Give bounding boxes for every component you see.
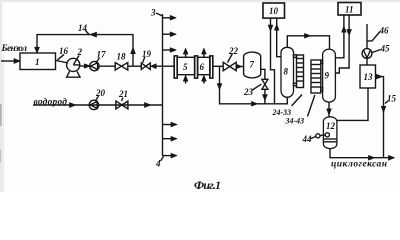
svg-text:19: 19 (142, 49, 152, 59)
scan border top (0, 0, 400, 2)
arrow feed right (252, 102, 258, 107)
arrow exch6 top (202, 48, 207, 54)
scan border left (0, 0, 2, 192)
leader 15 (385, 101, 389, 104)
reactor9 bottom outlet wire (328, 102, 330, 118)
svg-text:44: 44 (302, 134, 313, 144)
leader 16 (58, 55, 65, 60)
leader 34-43 (308, 95, 315, 117)
leader 4 (161, 157, 164, 162)
controller 11 (338, 3, 361, 16)
arrow recycle left 14 (90, 32, 97, 37)
svg-text:18: 18 (117, 52, 127, 62)
valve 22 (223, 62, 236, 70)
svg-text:6: 6 (200, 62, 205, 72)
svg-text:15: 15 (387, 94, 397, 104)
controller11 output wire (336, 15, 350, 73)
wire valve45 to box13 (366, 58, 368, 65)
arrow manifold 4b (171, 136, 177, 141)
leader 22 (228, 54, 233, 63)
reactor 9 (323, 49, 336, 102)
separator 7 (244, 52, 261, 78)
arrow manifold 3b (170, 32, 176, 37)
svg-text:13: 13 (364, 72, 374, 82)
arrow reactor9 to drum12 (327, 109, 332, 115)
arrow reactor8 to reactor9 (305, 34, 311, 39)
pump 2 (67, 58, 80, 77)
arrow controller11 out down (347, 30, 352, 36)
heater panel 24-33 (294, 55, 304, 88)
valve 19 (141, 63, 150, 69)
arrow manifold 3a (170, 16, 176, 21)
mixer tank 1 (20, 53, 56, 70)
svg-text:45: 45 (380, 44, 391, 54)
arrow valve23 down (263, 95, 268, 101)
svg-text:циклогексан: циклогексан (331, 160, 387, 170)
wire drum12 to box13 (337, 88, 369, 120)
svg-text:12: 12 (326, 121, 336, 131)
arrow box13 outlet right (376, 74, 382, 79)
branch wire 4b (163, 138, 175, 140)
level gauge 44 (316, 134, 320, 138)
valve 23 (262, 79, 268, 89)
svg-text:4: 4 (155, 159, 161, 169)
drum12 bottom outlet wire (330, 149, 394, 158)
branch wire 4a (163, 124, 175, 126)
arrow manifold 4a (171, 122, 177, 127)
svg-text:22: 22 (228, 46, 239, 56)
arrow controller11 sensor up (342, 26, 347, 32)
svg-text:34-43: 34-43 (285, 117, 305, 126)
leader 3 (156, 13, 162, 16)
arrow exch5 bottom (183, 75, 188, 81)
controller11 sensor wire (335, 15, 344, 58)
cooler 13 (360, 65, 376, 88)
branch wire 4c (163, 155, 175, 157)
flash drum 12 (323, 117, 337, 149)
arrow bypass down (217, 84, 222, 90)
arrow manifold 3c (170, 48, 176, 53)
bypass drop wire (220, 66, 288, 104)
branch wire 3c (163, 49, 174, 51)
arrow manifold 4c (171, 153, 177, 158)
arrow controller10 sensor up (274, 24, 279, 30)
arrow line15 down (381, 106, 386, 112)
scan mark left edge (0, 104, 2, 126)
arrow valve22 out (236, 64, 242, 69)
hydrogen makeup wire 46 (366, 24, 368, 49)
leader 45 (372, 50, 381, 53)
svg-text:Бензол: Бензол (1, 44, 28, 54)
svg-text:5: 5 (183, 62, 188, 72)
drum12 tray lines (324, 138, 337, 140)
valve 18 (115, 63, 128, 71)
wire valve23 to feed line (264, 89, 266, 104)
wire pump2 to check valve 17 (80, 65, 90, 67)
svg-text:2: 2 (77, 47, 83, 57)
svg-text:10: 10 (269, 6, 279, 16)
manifold header 3-4 (162, 14, 164, 156)
arrow controller10 out down (268, 25, 273, 31)
hydrogen feed wire (33, 104, 163, 106)
svg-text:11: 11 (345, 5, 354, 15)
leader 20 (95, 96, 98, 101)
controller10 sensor wire (277, 18, 281, 57)
svg-text:21: 21 (118, 89, 128, 99)
leader 21 (122, 98, 124, 102)
svg-text:23: 23 (243, 87, 254, 97)
svg-text:16: 16 (59, 46, 69, 56)
scan mark left lower (0, 150, 1, 162)
wire valve22 to separator7 (236, 66, 243, 68)
arrow exch5 top (183, 48, 188, 54)
recycle wire 14 (37, 35, 133, 67)
check valve 20 (89, 100, 98, 109)
scan fold line (2, 55, 4, 192)
svg-text:14: 14 (78, 23, 88, 33)
svg-text:Фиг.1: Фиг.1 (194, 178, 221, 192)
wire valve18 to valve19 (128, 65, 142, 67)
reactor 8 (281, 47, 294, 97)
controller10 output wire (271, 18, 275, 104)
svg-text:20: 20 (95, 88, 106, 98)
control valve 45 (362, 49, 372, 59)
benzene feed wire (1, 60, 16, 62)
arrow recycle into tank1 (35, 47, 40, 53)
heater panel 34-43 (311, 60, 323, 93)
check valve 17 (90, 61, 99, 70)
svg-text:17: 17 (97, 50, 107, 60)
leader 44 (310, 137, 316, 140)
arrow benzene in (14, 59, 20, 64)
heat exchanger 5 (174, 50, 197, 83)
leader 14 (86, 31, 90, 35)
svg-text:9: 9 (325, 71, 330, 81)
valve 21 (116, 101, 128, 109)
arrow hydrogen in (70, 103, 76, 108)
branch wire 3b (163, 33, 174, 35)
heat exchanger 6 (198, 50, 213, 83)
arrow branch up 14 (131, 48, 136, 54)
wire valve19 to manifold (150, 65, 174, 67)
leader 2 (74, 56, 80, 65)
reactor8 top outlet wire (287, 36, 329, 49)
controller 10 (263, 3, 285, 18)
arrow exch6 bottom (202, 75, 207, 81)
svg-text:3: 3 (150, 8, 156, 18)
svg-text:46: 46 (379, 26, 390, 36)
svg-text:1: 1 (35, 57, 40, 67)
svg-text:7: 7 (250, 60, 255, 70)
leader 24-33 (292, 95, 303, 107)
leader 23 (252, 84, 262, 90)
branch wire 3a (163, 17, 174, 19)
svg-text:8: 8 (284, 67, 289, 77)
leader 17 (96, 58, 100, 63)
leader 19 (143, 57, 146, 63)
wire exch6 to valve22 (213, 65, 223, 67)
arrow hydrogen to manifold (145, 103, 151, 108)
wire 17 to valve 18 (99, 65, 115, 67)
arrow product mid (369, 155, 375, 160)
wire 16 tank1 to pump2 (56, 60, 69, 63)
arrow after valve19 left (151, 64, 157, 69)
svg-text:водород: водород (34, 97, 68, 108)
arrow before valve17 (84, 64, 90, 68)
wire separator7 to valve23 (261, 69, 265, 79)
box13 gas outlet wire 15 (376, 77, 384, 158)
label46 tick (367, 32, 380, 41)
arrow product out (389, 155, 395, 160)
